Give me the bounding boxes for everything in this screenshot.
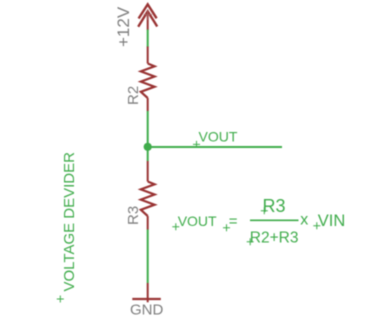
svg-text:R3: R3 bbox=[263, 196, 286, 216]
svg-text:VOUT: VOUT bbox=[178, 213, 217, 229]
svg-text:R2: R2 bbox=[125, 86, 142, 105]
svg-text:=: = bbox=[229, 213, 238, 230]
svg-text:R3: R3 bbox=[125, 206, 142, 225]
svg-text:GND: GND bbox=[130, 301, 164, 318]
svg-text:R2+R3: R2+R3 bbox=[250, 230, 299, 247]
svg-text:VIN: VIN bbox=[318, 212, 346, 230]
svg-text:VOLTAGE DEVIDER: VOLTAGE DEVIDER bbox=[61, 152, 78, 292]
svg-text:VOUT: VOUT bbox=[199, 129, 238, 145]
svg-text:x: x bbox=[300, 212, 308, 229]
svg-text:+12V: +12V bbox=[114, 6, 133, 47]
